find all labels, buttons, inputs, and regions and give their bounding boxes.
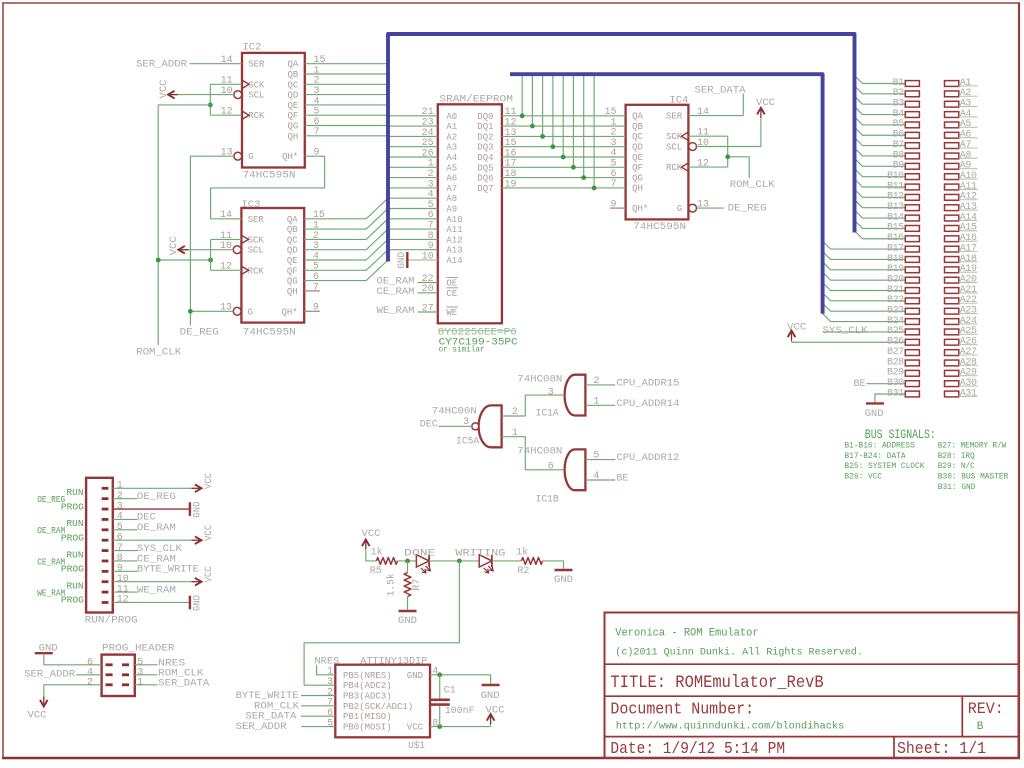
svg-text:ROM_CLK: ROM_CLK — [730, 179, 776, 191]
svg-text:10: 10 — [220, 241, 232, 252]
svg-text:A25: A25 — [960, 326, 977, 337]
svg-text:PB5(NRES): PB5(NRES) — [343, 671, 392, 681]
svg-text:BUS SIGNALS:: BUS SIGNALS: — [865, 427, 936, 442]
wire IC2 QH* cascade to IC3 SER — [211, 156, 325, 219]
svg-text:QH: QH — [287, 132, 298, 142]
wire bus to SRAM A0-A7 — [388, 115, 438, 117]
svg-text:B16: B16 — [887, 233, 904, 244]
svg-text:2: 2 — [327, 687, 333, 698]
svg-text:1k: 1k — [516, 547, 528, 559]
svg-text:A5: A5 — [960, 119, 972, 130]
svg-text:IC1B: IC1B — [536, 494, 559, 506]
wire R5 to DONE LED — [398, 560, 417, 562]
svg-text:B22: B22 — [887, 295, 904, 306]
svg-text:1: 1 — [512, 428, 518, 439]
svg-text:QH*: QH* — [282, 152, 298, 162]
svg-text:SER_DATA: SER_DATA — [695, 85, 747, 97]
svg-text:BE: BE — [616, 473, 628, 485]
wire IC5A pin2 to IC1A input — [502, 395, 565, 416]
wire IC4 SCL to VCC — [697, 118, 761, 147]
wire pin12 to GND — [113, 601, 190, 603]
svg-text:RCK: RCK — [248, 111, 265, 121]
svg-text:IC3: IC3 — [241, 199, 260, 211]
and gate IC1A 74HC08N — [565, 375, 586, 416]
svg-text:QB: QB — [287, 225, 298, 235]
svg-text:VCC: VCC — [158, 80, 170, 99]
svg-text:A21: A21 — [960, 285, 977, 296]
svg-text:DE_REG: DE_REG — [180, 327, 219, 339]
IC5A output bubble — [472, 423, 479, 430]
power symbol VCC at pin6 — [195, 536, 202, 544]
svg-text:B27: B27 — [887, 347, 904, 358]
svg-text:WRITING: WRITING — [455, 548, 505, 560]
svg-text:74HC08N: 74HC08N — [517, 446, 562, 458]
wire IC5A pin1 to IC1B input — [502, 437, 565, 470]
svg-text:QC: QC — [287, 235, 298, 245]
svg-text:ATTINY13DIP: ATTINY13DIP — [360, 655, 427, 667]
svg-text:B14: B14 — [887, 212, 904, 223]
junction on IC2 clock bracket — [208, 103, 213, 108]
svg-text:QD: QD — [287, 246, 298, 256]
svg-text:VCC: VCC — [28, 710, 47, 722]
wire NRES to PB5 — [317, 665, 336, 675]
wire U$1 GND pin4 — [430, 674, 491, 676]
svg-text:GND: GND — [554, 574, 573, 586]
resistor R2 1k — [521, 558, 542, 565]
svg-text:A7: A7 — [960, 140, 972, 151]
svg-text:B23: B23 — [887, 306, 904, 317]
svg-text:RUN: RUN — [67, 487, 84, 498]
svg-text:R2: R2 — [517, 565, 529, 577]
wire SER_DATA to PB1 — [301, 715, 335, 717]
svg-text:PROG_HEADER: PROG_HEADER — [102, 643, 175, 655]
svg-text:A11: A11 — [446, 225, 462, 235]
svg-text:QD: QD — [632, 143, 643, 153]
svg-text:VCC: VCC — [203, 525, 215, 541]
svg-text:13: 13 — [221, 148, 233, 159]
svg-text:SER_ADDR: SER_ADDR — [236, 721, 288, 733]
svg-text:CPU_ADDR14: CPU_ADDR14 — [616, 398, 679, 410]
svg-text:QE: QE — [287, 101, 298, 111]
power symbol VCC at IC2 SCL — [168, 91, 175, 99]
wire VCC to R5 — [366, 550, 377, 561]
svg-text:74HC595N: 74HC595N — [243, 327, 296, 339]
svg-text:B15: B15 — [887, 223, 904, 234]
svg-text:G: G — [248, 152, 253, 162]
svg-text:12: 12 — [221, 107, 233, 118]
wire IC1A pin1 to CPU_ADDR14 — [585, 404, 615, 406]
svg-text:GND: GND — [192, 502, 204, 518]
power symbol VCC below PROG_HEADER — [40, 700, 48, 707]
wire DEC to IC5A output — [439, 425, 473, 427]
wire IC1B pin5 to CPU_ADDR12 — [585, 459, 615, 461]
svg-text:Sheet: 1/1: Sheet: 1/1 — [897, 740, 986, 759]
svg-text:RUN/PROG: RUN/PROG — [85, 614, 138, 626]
svg-text:CPU_ADDR15: CPU_ADDR15 — [616, 377, 679, 389]
svg-text:6: 6 — [117, 532, 123, 543]
svg-text:DQ0: DQ0 — [477, 112, 493, 122]
wire pin11 WE_RAM — [113, 591, 138, 593]
svg-text:OE_REG: OE_REG — [37, 494, 65, 505]
svg-text:SER_ADDR: SER_ADDR — [136, 58, 188, 70]
svg-text:A3: A3 — [446, 143, 457, 153]
header PROG_HEADER body — [102, 655, 135, 696]
svg-text:B21: B21 — [887, 285, 904, 296]
wire DE_REG net IC2 G to IC3 G — [190, 156, 234, 325]
svg-text:U$1: U$1 — [408, 740, 425, 752]
wire B1-B16 from address bus — [855, 76, 906, 84]
svg-text:A1: A1 — [446, 122, 457, 132]
svg-text:Date: 1/9/12 5:14 PM: Date: 1/9/12 5:14 PM — [610, 740, 785, 759]
IC3 QH unconnected stub — [304, 290, 320, 292]
svg-text:PB2(SCK/ADC1): PB2(SCK/ADC1) — [343, 702, 413, 712]
svg-text:B26: VCC: B26: VCC — [845, 473, 883, 482]
svg-text:3: 3 — [548, 387, 554, 398]
svg-text:CPU_ADDR12: CPU_ADDR12 — [616, 452, 679, 464]
svg-text:SCL: SCL — [666, 143, 682, 153]
wire BE to B30 — [867, 383, 906, 385]
svg-text:VCC: VCC — [756, 97, 775, 109]
svg-text:WE: WE — [446, 308, 457, 318]
svg-text:QG: QG — [287, 122, 298, 132]
svg-text:10: 10 — [221, 86, 233, 97]
svg-text:A28: A28 — [960, 357, 977, 368]
pin labels A1-A31 with stubs — [959, 85, 978, 87]
svg-text:B28: B28 — [887, 357, 904, 368]
IC3 SCK clock wedge — [241, 235, 248, 243]
svg-text:6: 6 — [548, 461, 554, 472]
svg-text:RCK: RCK — [666, 163, 683, 173]
svg-text:VCC: VCC — [362, 528, 381, 540]
svg-text:DQ5: DQ5 — [477, 163, 493, 173]
svg-text:SCK: SCK — [248, 80, 265, 90]
svg-text:3: 3 — [327, 677, 333, 688]
wire pin2 to VCC — [44, 685, 102, 700]
wire pin7 SYS_CLK — [113, 550, 138, 552]
svg-text:QC: QC — [632, 132, 643, 142]
svg-text:11: 11 — [117, 584, 129, 595]
svg-text:OE_RAM: OE_RAM — [137, 522, 176, 534]
IC2 SCK clock wedge — [242, 80, 249, 88]
wire IC1A pin2 to CPU_ADDR15 — [585, 384, 615, 386]
IC3 G inversion bubble — [233, 307, 241, 315]
svg-text:Veronica - ROM Emulator: Veronica - ROM Emulator — [615, 628, 758, 640]
junction at R7 top — [405, 559, 410, 564]
ground symbol at pin12 — [189, 596, 191, 610]
svg-text:OE_RAM: OE_RAM — [37, 525, 65, 536]
connector pads A1-A31 — [945, 81, 959, 87]
junction ROM_CLK rail at IC3 tap — [156, 258, 161, 263]
svg-text:B17-B24: DATA: B17-B24: DATA — [845, 452, 906, 461]
wire CE_RAM — [418, 292, 438, 294]
resistor R7 1.5k vertical — [407, 561, 409, 573]
svg-text:A2: A2 — [446, 132, 457, 142]
svg-text:QH*: QH* — [632, 204, 648, 214]
svg-text:B25: B25 — [887, 326, 904, 337]
svg-text:1: 1 — [327, 667, 333, 678]
svg-text:A1: A1 — [960, 78, 972, 89]
title block frame — [605, 613, 1019, 759]
svg-text:B9: B9 — [893, 161, 905, 172]
nand gate IC5A 74HC00N — [479, 405, 502, 447]
svg-text:DE_REG: DE_REG — [728, 203, 767, 215]
svg-text:QF: QF — [287, 266, 298, 276]
wire IC3 QA-QG diagonals to bus — [304, 198, 388, 219]
ground symbol at U$1 — [490, 675, 492, 684]
svg-text:10: 10 — [117, 574, 129, 585]
svg-text:B3: B3 — [893, 99, 905, 110]
svg-text:B28: IRQ: B28: IRQ — [938, 452, 975, 461]
svg-text:B19: B19 — [887, 264, 904, 275]
svg-text:RUN: RUN — [67, 549, 84, 560]
svg-text:A15: A15 — [960, 223, 977, 234]
svg-text:27: 27 — [422, 303, 434, 314]
svg-text:B7: B7 — [893, 140, 905, 151]
wire pin1 to VCC — [113, 487, 195, 489]
svg-text:A22: A22 — [960, 295, 977, 306]
svg-text:WE_RAM: WE_RAM — [377, 305, 415, 317]
svg-text:B29: B29 — [887, 368, 904, 379]
shift register IC4 74HC595N body — [626, 105, 689, 220]
svg-text:RCK: RCK — [248, 266, 265, 276]
svg-text:12: 12 — [117, 595, 129, 606]
IC4 SCL inversion bubble — [689, 143, 697, 151]
svg-text:SER: SER — [666, 112, 683, 122]
svg-text:RUN: RUN — [67, 581, 84, 592]
svg-text:SER: SER — [248, 215, 265, 225]
svg-text:12: 12 — [697, 159, 709, 170]
IC4 RCK clock wedge — [681, 163, 688, 171]
svg-text:QE: QE — [287, 256, 298, 266]
IC4 SCK clock wedge — [681, 132, 688, 140]
wire WRITING to ATTINY PB4 — [304, 561, 459, 685]
junction at C1 bottom — [437, 724, 442, 729]
and gate IC1B 74HC08N — [565, 449, 586, 490]
svg-text:IC4: IC4 — [669, 95, 688, 107]
svg-text:A2: A2 — [960, 88, 972, 99]
ground symbol at SRAM A14 — [406, 252, 408, 268]
svg-text:A12: A12 — [960, 192, 977, 203]
svg-text:B30: BUS MASTER: B30: BUS MASTER — [938, 473, 1009, 482]
svg-text:3: 3 — [117, 501, 123, 512]
svg-text:CE_RAM: CE_RAM — [377, 286, 415, 298]
wire pin4 DEC — [113, 518, 138, 520]
svg-text:A16: A16 — [960, 233, 977, 244]
svg-text:IC1A: IC1A — [536, 407, 560, 419]
svg-text:A13: A13 — [446, 246, 462, 256]
svg-text:A8: A8 — [960, 150, 972, 161]
svg-text:ROM_CLK: ROM_CLK — [136, 347, 182, 359]
svg-text:B2: B2 — [893, 88, 905, 99]
svg-text:BE: BE — [854, 378, 866, 390]
svg-text:B30: B30 — [887, 378, 904, 389]
PROG_HEADER pin contacts — [106, 663, 113, 666]
svg-text:B: B — [977, 721, 984, 733]
svg-text:A6: A6 — [960, 130, 972, 141]
wire SER_ADDR to IC2 SER — [190, 63, 243, 65]
power symbol VCC at pin1 — [195, 485, 202, 493]
svg-text:SRAM/EEPROM: SRAM/EEPROM — [439, 93, 513, 105]
svg-text:10: 10 — [422, 251, 434, 262]
svg-text:QH*: QH* — [281, 307, 297, 317]
IC3 QH* unconnected stub — [304, 310, 320, 312]
svg-text:A9: A9 — [960, 161, 972, 172]
svg-text:PB4(ADC2): PB4(ADC2) — [343, 681, 392, 691]
IC3 SCL inversion bubble — [233, 246, 241, 254]
svg-text:QB: QB — [287, 70, 298, 80]
svg-text:A17: A17 — [960, 243, 977, 254]
svg-text:B1: B1 — [893, 78, 905, 89]
svg-text:CE_RAM: CE_RAM — [37, 556, 65, 567]
svg-text:OE: OE — [446, 279, 457, 289]
wire data taps to data bus — [521, 74, 523, 116]
svg-text:B31: B31 — [887, 388, 904, 399]
svg-text:A10: A10 — [960, 171, 977, 182]
svg-text:9: 9 — [313, 303, 319, 314]
svg-text:1: 1 — [117, 481, 123, 492]
svg-text:GND: GND — [192, 595, 204, 611]
svg-text:B5: B5 — [893, 119, 905, 130]
svg-text:QA: QA — [287, 215, 298, 225]
data bus B17-B24 (blue) — [510, 74, 823, 314]
wire IC2 SCK-RCK bracket — [210, 83, 242, 85]
svg-text:A20: A20 — [960, 274, 977, 285]
svg-text:QC: QC — [287, 80, 298, 90]
svg-text:6: 6 — [327, 708, 333, 719]
svg-text:B29: N/C: B29: N/C — [938, 462, 975, 471]
ground symbol below B31 — [866, 402, 884, 404]
svg-text:SCK: SCK — [248, 235, 265, 245]
svg-text:74HC08N: 74HC08N — [517, 373, 562, 385]
wire IC4 SER to SER_DATA — [688, 94, 743, 116]
svg-text:IC5A: IC5A — [456, 435, 480, 447]
microcontroller U$1 ATTINY13DIP body — [335, 665, 430, 738]
svg-text:QA: QA — [632, 112, 643, 122]
svg-text:G: G — [248, 307, 253, 317]
svg-text:B18: B18 — [887, 254, 904, 265]
svg-text:B25: SYSTEM CLOCK: B25: SYSTEM CLOCK — [845, 462, 925, 471]
svg-text:10: 10 — [697, 138, 709, 149]
svg-text:GND: GND — [407, 671, 423, 681]
svg-text:1: 1 — [593, 396, 599, 407]
svg-text:A12: A12 — [446, 235, 462, 245]
wire ROM_CLK rail — [158, 105, 210, 345]
svg-text:12: 12 — [220, 262, 232, 273]
wire pin1 SER_DATA — [135, 684, 158, 686]
svg-text:REV:: REV: — [968, 700, 1004, 718]
svg-text:4: 4 — [432, 667, 438, 678]
svg-text:5: 5 — [327, 718, 333, 729]
svg-text:A7: A7 — [446, 184, 457, 194]
svg-text:DQ4: DQ4 — [477, 153, 493, 163]
svg-text:B13: B13 — [887, 202, 904, 213]
svg-text:R5: R5 — [370, 565, 382, 577]
junctions on data wires — [520, 113, 525, 118]
wire SYS_CLK to B25 — [823, 331, 906, 333]
svg-text:VCC: VCC — [203, 566, 215, 582]
junction WRITING net — [457, 559, 462, 564]
svg-text:PB0(MOSI): PB0(MOSI) — [343, 723, 392, 733]
svg-text:WE_RAM: WE_RAM — [37, 588, 65, 599]
svg-text:GND: GND — [865, 408, 884, 420]
svg-text:Document Number:: Document Number: — [610, 701, 754, 720]
IC4 G inversion bubble — [689, 204, 697, 212]
wire B31 to ground — [875, 394, 905, 402]
power symbol VCC at IC4 — [757, 108, 765, 115]
svg-text:A10: A10 — [446, 215, 462, 225]
svg-text:A24: A24 — [960, 316, 977, 327]
IC3 RCK clock wedge — [241, 266, 248, 274]
wire R2 to ground — [543, 561, 564, 569]
svg-text:A6: A6 — [446, 174, 457, 184]
connector pads B1-B31 — [905, 81, 919, 87]
svg-text:DQ1: DQ1 — [477, 122, 493, 132]
ground symbol below R7 — [399, 610, 417, 612]
wire IC4 SCK-RCK bracket to ROM_CLK — [688, 135, 727, 137]
wire pin6 to VCC — [113, 539, 195, 541]
svg-text:4: 4 — [593, 471, 599, 482]
svg-text:20: 20 — [422, 284, 434, 295]
svg-text:A11: A11 — [960, 181, 977, 192]
svg-text:QA: QA — [287, 60, 298, 70]
wire pin9 BYTE_WRITE — [113, 570, 138, 572]
svg-text:9: 9 — [314, 148, 320, 159]
svg-text:100nF: 100nF — [445, 705, 475, 717]
svg-text:CE: CE — [446, 289, 457, 299]
wire IC3 SCK-RCK bracket — [211, 238, 242, 240]
svg-text:GND: GND — [396, 252, 408, 269]
wire SER_ADDR to PB0 — [301, 726, 335, 728]
svg-text:1k: 1k — [371, 547, 383, 559]
IC2 RCK clock wedge — [242, 111, 249, 119]
wire WE_RAM — [418, 311, 438, 313]
svg-text:9: 9 — [610, 200, 616, 211]
svg-text:7: 7 — [117, 543, 123, 554]
svg-text:RUN: RUN — [67, 518, 84, 529]
svg-text:DQ7: DQ7 — [477, 184, 493, 194]
wire pin3 ROM_CLK — [135, 674, 158, 676]
svg-text:1: 1 — [137, 677, 143, 688]
svg-text:B11: B11 — [887, 181, 904, 192]
svg-text:A19: A19 — [960, 264, 977, 275]
svg-text:OE_REG: OE_REG — [137, 491, 176, 503]
svg-text:13: 13 — [697, 200, 709, 211]
junction DE_REG at IC3 G — [188, 309, 193, 314]
svg-text:SER_ADDR: SER_ADDR — [24, 668, 76, 680]
svg-text:DQ2: DQ2 — [477, 132, 493, 142]
svg-text:9: 9 — [117, 564, 123, 575]
power symbol VCC at U$1 — [490, 722, 492, 727]
svg-text:A29: A29 — [960, 368, 977, 379]
svg-text:14: 14 — [221, 55, 233, 66]
power symbol VCC at pin10 — [195, 578, 202, 586]
svg-text:QE: QE — [632, 153, 643, 163]
svg-text:SCL: SCL — [248, 91, 264, 101]
svg-text:http://www.quinndunki.com/blon: http://www.quinndunki.com/blondihacks — [616, 721, 845, 733]
svg-text:4: 4 — [117, 512, 123, 523]
svg-text:GND: GND — [481, 690, 500, 702]
svg-text:13: 13 — [220, 303, 232, 314]
svg-text:74HC595N: 74HC595N — [633, 221, 686, 233]
svg-text:QH: QH — [632, 184, 643, 194]
svg-text:8: 8 — [432, 718, 438, 729]
ground symbol at pin3 — [189, 502, 191, 516]
wire pin2 OE_REG — [113, 498, 138, 500]
svg-text:74HC00N: 74HC00N — [432, 405, 477, 417]
svg-text:14: 14 — [220, 210, 232, 221]
svg-text:or similar: or similar — [439, 346, 485, 355]
wire DONE LED to WRITING LED — [429, 560, 479, 562]
